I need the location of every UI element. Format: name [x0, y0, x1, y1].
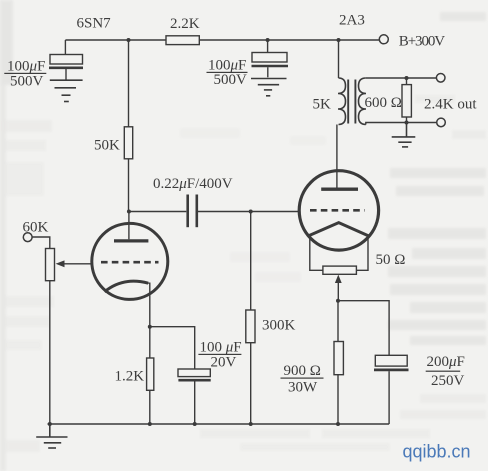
- node D junction dot: [249, 210, 253, 214]
- tube V2 plate: [321, 187, 358, 190]
- wire C5 to rail corner: [388, 371, 390, 424]
- wire cathode to 1.2K: [149, 327, 151, 358]
- transformer T1 core: [348, 80, 355, 124]
- terminal B+300V: [379, 35, 388, 44]
- wire branch to C5: [338, 301, 389, 356]
- svg-text:1.2K: 1.2K: [115, 369, 145, 385]
- wire 300K to rail: [250, 343, 252, 424]
- node L junction dot: [336, 299, 340, 303]
- wiper arrow VR2: [335, 275, 342, 283]
- node I junction dot: [337, 38, 341, 42]
- node H junction dot: [249, 422, 253, 426]
- wire secondary bottom to output: [366, 123, 437, 125]
- wire cathode branch to C4: [150, 327, 195, 369]
- wire C4 to rail: [194, 381, 196, 424]
- wire input to pot: [32, 237, 50, 249]
- svg-text:50K: 50K: [94, 138, 120, 154]
- ground G4: [392, 123, 416, 147]
- svg-text:5K: 5K: [313, 97, 332, 113]
- tube V1 6SN7 envelope: [92, 223, 168, 299]
- svg-text:B+300V: B+300V: [399, 34, 445, 50]
- ground G2: [251, 79, 287, 96]
- wire 600 ohm top lead: [406, 78, 408, 85]
- resistor R3 1.2K: [147, 358, 154, 390]
- node F junction dot: [148, 422, 152, 426]
- tube V1 grid (dashed): [101, 261, 159, 264]
- node M junction dot: [336, 422, 340, 426]
- wire 1.2K to rail: [149, 390, 151, 424]
- tube V1 cathode: [105, 281, 149, 292]
- tube V1 plate: [114, 239, 148, 242]
- transformer T1 primary winding: [338, 78, 346, 125]
- tube V2 grid (dashed): [310, 209, 365, 212]
- wire plate node into tube V1: [128, 212, 130, 240]
- node J junction dot: [405, 76, 409, 80]
- node K junction dot: [405, 121, 409, 125]
- svg-text:60K: 60K: [23, 220, 49, 236]
- capacitor C4 100uF/20V body: [178, 369, 210, 377]
- svg-text:250V: 250V: [431, 373, 465, 389]
- wire 600 ohm bottom lead: [406, 117, 408, 123]
- capacitor C1 100uF/500V lead: [64, 40, 66, 55]
- svg-text:30W: 30W: [288, 380, 318, 396]
- svg-text:100μF: 100μF: [7, 59, 45, 75]
- wire coupling left: [129, 211, 186, 213]
- wire filament left to hum pot: [310, 237, 323, 270]
- svg-text:500V: 500V: [214, 72, 248, 88]
- terminal input: [23, 233, 32, 242]
- wire transformer to V2 plate: [336, 125, 338, 189]
- resistor R5 600 ohm: [402, 85, 411, 117]
- node G junction dot: [193, 422, 197, 426]
- resistor R1 2.2K: [166, 36, 199, 45]
- wire transformer primary feed: [338, 40, 340, 78]
- svg-text:2.2K: 2.2K: [170, 16, 200, 32]
- resistor R2 50K: [124, 127, 132, 159]
- svg-text:2.4K out: 2.4K out: [424, 97, 477, 113]
- tube V2 filament: [308, 223, 370, 237]
- svg-text:200μF: 200μF: [427, 354, 465, 370]
- svg-text:20V: 20V: [211, 355, 237, 371]
- svg-text:50 Ω: 50 Ω: [376, 252, 406, 268]
- wire filament right to hum pot: [356, 237, 368, 270]
- wire V1 cathode lead: [148, 283, 150, 327]
- node B junction dot: [266, 38, 270, 42]
- wire V1 grid lead with wiper arrow: [63, 263, 92, 265]
- svg-text:0.22μF/400V: 0.22μF/400V: [153, 176, 233, 192]
- svg-text:6SN7: 6SN7: [77, 16, 112, 32]
- ground G1: [50, 80, 83, 101]
- resistor R4 300K: [246, 310, 255, 343]
- svg-text:500V: 500V: [10, 74, 44, 90]
- node A junction dot: [127, 38, 131, 42]
- wire top B+ rail: [65, 39, 379, 41]
- bottom ground rail: [48, 423, 390, 425]
- wire coupling right to V2 grid: [198, 211, 299, 213]
- svg-text:2A3: 2A3: [339, 13, 365, 29]
- svg-text:900 Ω: 900 Ω: [284, 363, 321, 379]
- capacitor C5 200uF/250V body: [375, 355, 407, 366]
- svg-text:100 μF: 100 μF: [200, 340, 242, 356]
- potentiometer VR2 50 ohm: [323, 266, 357, 274]
- terminal out bottom: [437, 118, 446, 127]
- terminal out top: [436, 74, 445, 83]
- wire to 900 ohm: [337, 301, 339, 342]
- wire 300K feed: [250, 212, 252, 311]
- node N junction dot: [48, 422, 52, 426]
- wire secondary top to output: [366, 77, 437, 79]
- capacitor C1 100uF/500V body: [50, 55, 83, 65]
- resistor R6 900 ohm: [334, 342, 343, 375]
- capacitor C2 100uF/500V body: [252, 53, 287, 63]
- transformer T1 secondary winding: [359, 78, 367, 125]
- node E junction dot: [148, 325, 152, 329]
- svg-text:600 Ω: 600 Ω: [365, 95, 402, 111]
- capacitor C3 0.22uF/400V: [188, 195, 197, 228]
- svg-text:qqibb.cn: qqibb.cn: [403, 442, 471, 462]
- wire 50K to plate node: [128, 159, 130, 212]
- wire 900 ohm to rail: [337, 375, 339, 424]
- tube V2 2A3 envelope: [299, 171, 378, 250]
- ground G3: [36, 424, 67, 448]
- potentiometer VR1 60K: [46, 249, 55, 281]
- svg-text:300K: 300K: [262, 318, 296, 334]
- wire pot to ground rail: [49, 281, 51, 424]
- capacitor C2 100uF/500V lead: [267, 40, 269, 53]
- node C junction dot: [127, 210, 131, 214]
- wire 50K feed: [128, 40, 130, 127]
